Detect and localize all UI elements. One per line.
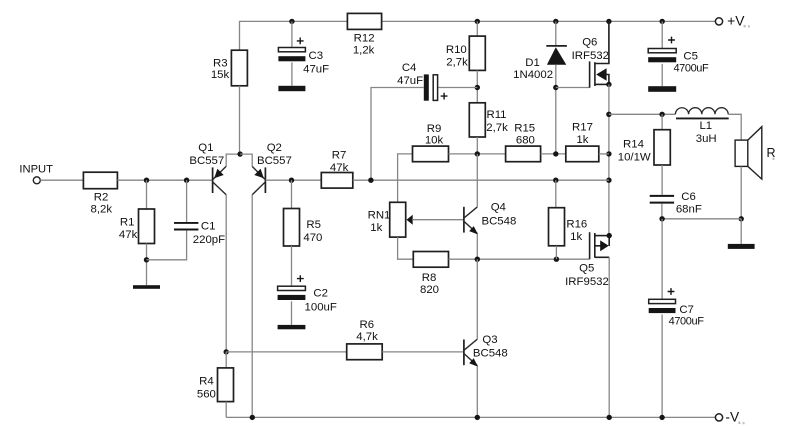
wire: R2 to Q1 base <box>117 179 212 181</box>
resistor R10 <box>469 36 485 70</box>
C2 plus sign <box>297 275 304 282</box>
node: D1 tap on +V rail <box>553 19 558 24</box>
node: C3 tap on +V rail <box>289 19 294 24</box>
resistor R1 <box>139 209 155 244</box>
wire: C2 to ground <box>291 301 293 325</box>
svg-text:R7: R7 <box>332 150 347 162</box>
C5 plus sign <box>668 37 675 44</box>
C3 plus sign <box>297 38 304 45</box>
wire: C6 node to speaker ground node <box>662 218 741 220</box>
svg-text:47k: 47k <box>119 229 138 241</box>
wire: RN1 wiper to Q4 base <box>412 219 464 221</box>
ground under C2 <box>278 325 306 329</box>
resistor R2 <box>83 172 117 189</box>
wire: L1 to speaker <box>728 114 741 140</box>
svg-text:D1: D1 <box>525 57 540 69</box>
wire: speaker to ground node <box>740 166 742 218</box>
svg-text:1k: 1k <box>576 134 588 146</box>
capacitor C7 (electrolytic plates) <box>649 299 676 303</box>
svg-text:R14: R14 <box>623 139 644 151</box>
wire: input node to R1 <box>146 180 148 209</box>
svg-text:820: 820 <box>420 284 439 296</box>
wire: node to R4 <box>225 352 227 368</box>
wire: R9 to R15 <box>449 153 506 155</box>
svg-text:1N4002: 1N4002 <box>513 69 553 81</box>
RN1 wiper arrow <box>407 215 413 225</box>
svg-text:10/1W: 10/1W <box>618 151 651 163</box>
svg-text:C6: C6 <box>681 191 696 203</box>
svg-text:L1: L1 <box>699 120 712 132</box>
svg-text:Q1: Q1 <box>198 142 213 154</box>
svg-text:R2: R2 <box>94 191 109 203</box>
svg-text:100uF: 100uF <box>305 301 337 313</box>
node: C5 tap on +V rail <box>660 19 665 24</box>
transistor Q2 BC557 (PNP) <box>264 167 266 193</box>
svg-text:R15: R15 <box>514 123 535 135</box>
node: D1 column on ladder <box>553 151 558 156</box>
svg-text:4700uF: 4700uF <box>669 316 705 328</box>
svg-text:1k: 1k <box>370 222 382 234</box>
wire: output node to L1 <box>609 113 676 115</box>
wire: D1 anode down to R15/R17 node (through Q6 gate tap) <box>555 65 557 154</box>
node: R16 bottom <box>554 257 559 262</box>
wire: R10 to R11 through C4 node <box>476 70 478 102</box>
node: Q6 source <box>606 82 611 87</box>
wire: Q5 drain to -V rail <box>608 257 610 417</box>
wire: -V rail <box>226 416 715 418</box>
wire: R4 to -V rail <box>225 402 227 418</box>
svg-text:C1: C1 <box>201 220 216 232</box>
svg-text:560: 560 <box>197 388 216 400</box>
transistor Q3 BC548 (NPN) <box>463 340 465 366</box>
node: D1 anode / Q6 gate <box>553 85 558 90</box>
node: R11/Q4 collector on ladder <box>475 151 480 156</box>
node: Q5 drain on -V rail <box>607 415 612 420</box>
svg-text:INPUT: INPUT <box>19 164 53 176</box>
svg-text:C5: C5 <box>683 50 698 62</box>
svg-text:3uH: 3uH <box>696 133 717 145</box>
svg-text:Q4: Q4 <box>491 202 506 214</box>
terminal INPUT <box>33 177 40 184</box>
inductor L1 3uH <box>675 108 728 115</box>
capacitor C2 (electrolytic plates) <box>278 286 306 290</box>
svg-text:8,2k: 8,2k <box>91 203 113 215</box>
transistor Q1 BC557 (PNP) <box>212 167 214 193</box>
wire: C4 left plate down to Q2 base net <box>371 88 424 181</box>
svg-text:C7: C7 <box>679 304 694 316</box>
capacitor C4 (horizontal electrolytic) <box>424 74 429 100</box>
svg-text:IRF532: IRF532 <box>572 50 609 62</box>
svg-text:BC557: BC557 <box>257 155 292 167</box>
svg-text:680: 680 <box>516 135 535 147</box>
node: Q4 emitter / Q3 collector <box>475 257 480 262</box>
wire: gate node to Q6 gate <box>556 87 590 89</box>
wire: R3 to Q1/Q2 emitter node <box>239 86 241 154</box>
wire: C5 to ground <box>661 64 663 86</box>
svg-text:2,7k: 2,7k <box>446 56 468 68</box>
wire: base node to R5 <box>291 180 293 208</box>
label -V subscript marks <box>738 422 740 424</box>
svg-text:IRF9532: IRF9532 <box>565 276 609 288</box>
terminal +V <box>715 18 722 25</box>
wire: input node to C1 <box>186 180 188 222</box>
svg-text:47uF: 47uF <box>303 64 329 76</box>
svg-text:47k: 47k <box>330 162 349 174</box>
svg-text:R8: R8 <box>422 272 437 284</box>
node: R17 right end <box>606 151 611 156</box>
wire: feedback rail to R16 <box>555 180 557 208</box>
ground under R1 <box>133 285 160 289</box>
node: R16 tap <box>553 178 558 183</box>
ground under C5 <box>648 86 676 92</box>
transistor Q5 IRF9532 (P-channel MOSFET) <box>590 232 610 259</box>
wire: Q6 source down to Q5 (output column) <box>608 84 610 235</box>
wire: R17 to output column <box>599 153 609 155</box>
label +V subscript marks <box>744 25 746 27</box>
speaker RL <box>735 140 748 166</box>
wire: C7 to -V rail <box>661 315 663 418</box>
resistor R9 <box>413 146 449 162</box>
node: Q1/Q2 emitters and R3 <box>237 151 242 156</box>
label RL subscript <box>773 158 775 160</box>
wire: Q1 emitter to common node <box>226 154 240 166</box>
svg-text:R11: R11 <box>486 109 506 121</box>
wire: R6 to Q3 base <box>382 351 464 353</box>
svg-text:BC548: BC548 <box>481 215 516 227</box>
resistor R14 <box>654 130 670 165</box>
node: C4 right plate to R10/R11 <box>475 85 480 90</box>
capacitor C5 (electrolytic plates) <box>648 49 676 53</box>
svg-text:470: 470 <box>303 232 322 244</box>
wire: R1 to ground (through C1 join) <box>146 244 148 286</box>
resistor R11 <box>469 103 485 137</box>
svg-text:C3: C3 <box>309 50 324 62</box>
resistor R7 <box>321 173 353 189</box>
svg-text:BC548: BC548 <box>473 348 508 360</box>
wire: R16 to bias rail <box>555 246 557 259</box>
node: R10 tap on +V rail <box>475 19 480 24</box>
node: speaker ground junction <box>739 216 744 221</box>
svg-text:4700uF: 4700uF <box>673 62 709 74</box>
wire: R3 riser + top rail left segment to R12 <box>240 21 348 50</box>
wire: Q4 collector to ladder <box>476 154 478 207</box>
node: output to L1/R14 <box>606 112 611 117</box>
svg-text:220pF: 220pF <box>193 234 225 246</box>
svg-text:4,7k: 4,7k <box>356 331 378 343</box>
svg-text:Q3: Q3 <box>482 334 497 346</box>
wire: Q2 base to R7 <box>266 179 322 181</box>
svg-text:R10: R10 <box>446 44 467 56</box>
wire: Q3 emitter to -V rail <box>476 366 478 417</box>
wire: C6 to zobel node <box>661 204 663 219</box>
wire: R14 to C6 <box>661 165 663 195</box>
wire: R6 left (crosses Q2 collector) <box>226 351 347 353</box>
node: C4 tap <box>368 178 373 183</box>
node: feedback wire end <box>606 178 611 183</box>
capacitor C3 (electrolytic plates) <box>278 48 305 52</box>
node: R1 tap <box>144 178 149 183</box>
wire: to speaker ground bar <box>740 219 742 244</box>
svg-text:R17: R17 <box>572 122 593 134</box>
resistor R4 <box>218 368 234 402</box>
svg-text:10k: 10k <box>425 135 444 147</box>
svg-text:R3: R3 <box>213 57 228 69</box>
wire: rail to C5 <box>661 21 663 48</box>
wire: rail to R10 <box>476 21 478 36</box>
trimmer RN1 <box>390 202 406 237</box>
node: Q5 source on output column <box>607 233 612 238</box>
wire: RN1 bottom to R8 <box>398 237 414 259</box>
diode D1 1N4002 <box>546 45 567 47</box>
resistor R5 <box>284 209 300 247</box>
resistor R6 <box>347 344 383 360</box>
resistor R17 <box>566 146 599 162</box>
svg-text:R16: R16 <box>566 218 587 230</box>
wire: rail to C3 <box>291 21 293 47</box>
resistor R8 <box>413 252 448 268</box>
svg-text:C4: C4 <box>402 62 417 74</box>
terminal -V <box>715 414 722 421</box>
ground under speaker <box>728 244 755 249</box>
node: R1/C1 join <box>144 257 149 262</box>
wire: C4 right plate to R10/R11 node <box>438 87 478 89</box>
svg-text:R6: R6 <box>360 319 375 331</box>
wire: R11 to bias ladder node <box>476 137 478 154</box>
C7 plus sign <box>668 288 675 295</box>
wire: output node to R14 <box>661 114 663 129</box>
wire: R15 to R17 <box>541 153 566 155</box>
svg-text:BC557: BC557 <box>189 155 224 167</box>
ground under C3 <box>278 86 305 91</box>
wire: R5 to C2 <box>291 246 293 286</box>
svg-text:R1: R1 <box>120 217 135 229</box>
wire: C3 to ground <box>291 62 293 86</box>
capacitor C1 220pF <box>174 223 198 230</box>
node: Q1 collector / R4 / R6 <box>224 349 229 354</box>
resistor R12 <box>347 13 381 29</box>
wire: Q2 collector to -V rail <box>251 195 253 418</box>
svg-text:47uF: 47uF <box>397 75 423 87</box>
svg-text:Q6: Q6 <box>582 36 597 48</box>
svg-text:Q5: Q5 <box>579 262 594 274</box>
wire: R7 to output column (feedback rail) <box>353 179 609 181</box>
wire: Q3 collector to bias node <box>476 259 478 339</box>
node: C7 on -V rail <box>659 415 664 420</box>
svg-text:1,2k: 1,2k <box>353 44 375 56</box>
node: Q6 drain tap on +V rail <box>606 19 611 24</box>
svg-text:15k: 15k <box>211 69 230 81</box>
svg-text:C2: C2 <box>313 287 328 299</box>
wire: input terminal to R2 <box>40 179 83 181</box>
svg-text:+V: +V <box>727 14 745 29</box>
C4 plus sign <box>441 93 448 100</box>
wire: top rail from R12 to +V terminal <box>382 20 716 22</box>
wire: Q1 collector down to R6 node <box>225 195 227 352</box>
node: R14/L1 tap <box>659 112 664 117</box>
svg-text:1k: 1k <box>570 231 582 243</box>
resistor R3 <box>231 50 247 86</box>
svg-text:2,7k: 2,7k <box>486 122 508 134</box>
wire: R8 to Q5 gate (bias rail) <box>449 258 590 260</box>
node: R5 tap on Q2 base <box>289 178 294 183</box>
node: Q2 collector on -V rail <box>250 415 255 420</box>
wire: Q2 emitter to common node <box>240 154 252 166</box>
resistor R16 <box>549 208 565 246</box>
svg-text:Q2: Q2 <box>267 142 282 154</box>
svg-text:RN1: RN1 <box>368 210 391 222</box>
svg-text:68nF: 68nF <box>676 204 702 216</box>
wire: RN1 top to R9 <box>398 154 413 202</box>
svg-text:R4: R4 <box>199 376 214 388</box>
wire: Q4 emitter to bias node <box>476 234 478 259</box>
wire: down to C7 <box>661 219 663 299</box>
transistor Q6 IRF532 (N-channel MOSFET) <box>590 21 609 87</box>
transistor Q4 BC548 (NPN) <box>463 207 465 233</box>
svg-text:-V: -V <box>725 409 740 424</box>
node: C1 tap <box>184 178 189 183</box>
svg-text:R5: R5 <box>306 219 321 231</box>
wire: C1 to R1 bottom join <box>147 230 187 259</box>
wire: rail to D1 cathode <box>555 21 557 45</box>
svg-text:R9: R9 <box>427 123 442 135</box>
svg-text:R12: R12 <box>354 32 375 44</box>
node: Q3 emitter on -V rail <box>475 415 480 420</box>
resistor R15 <box>506 146 541 162</box>
capacitor C6 68nF <box>650 196 674 203</box>
node: C6/C7 junction <box>659 216 664 221</box>
